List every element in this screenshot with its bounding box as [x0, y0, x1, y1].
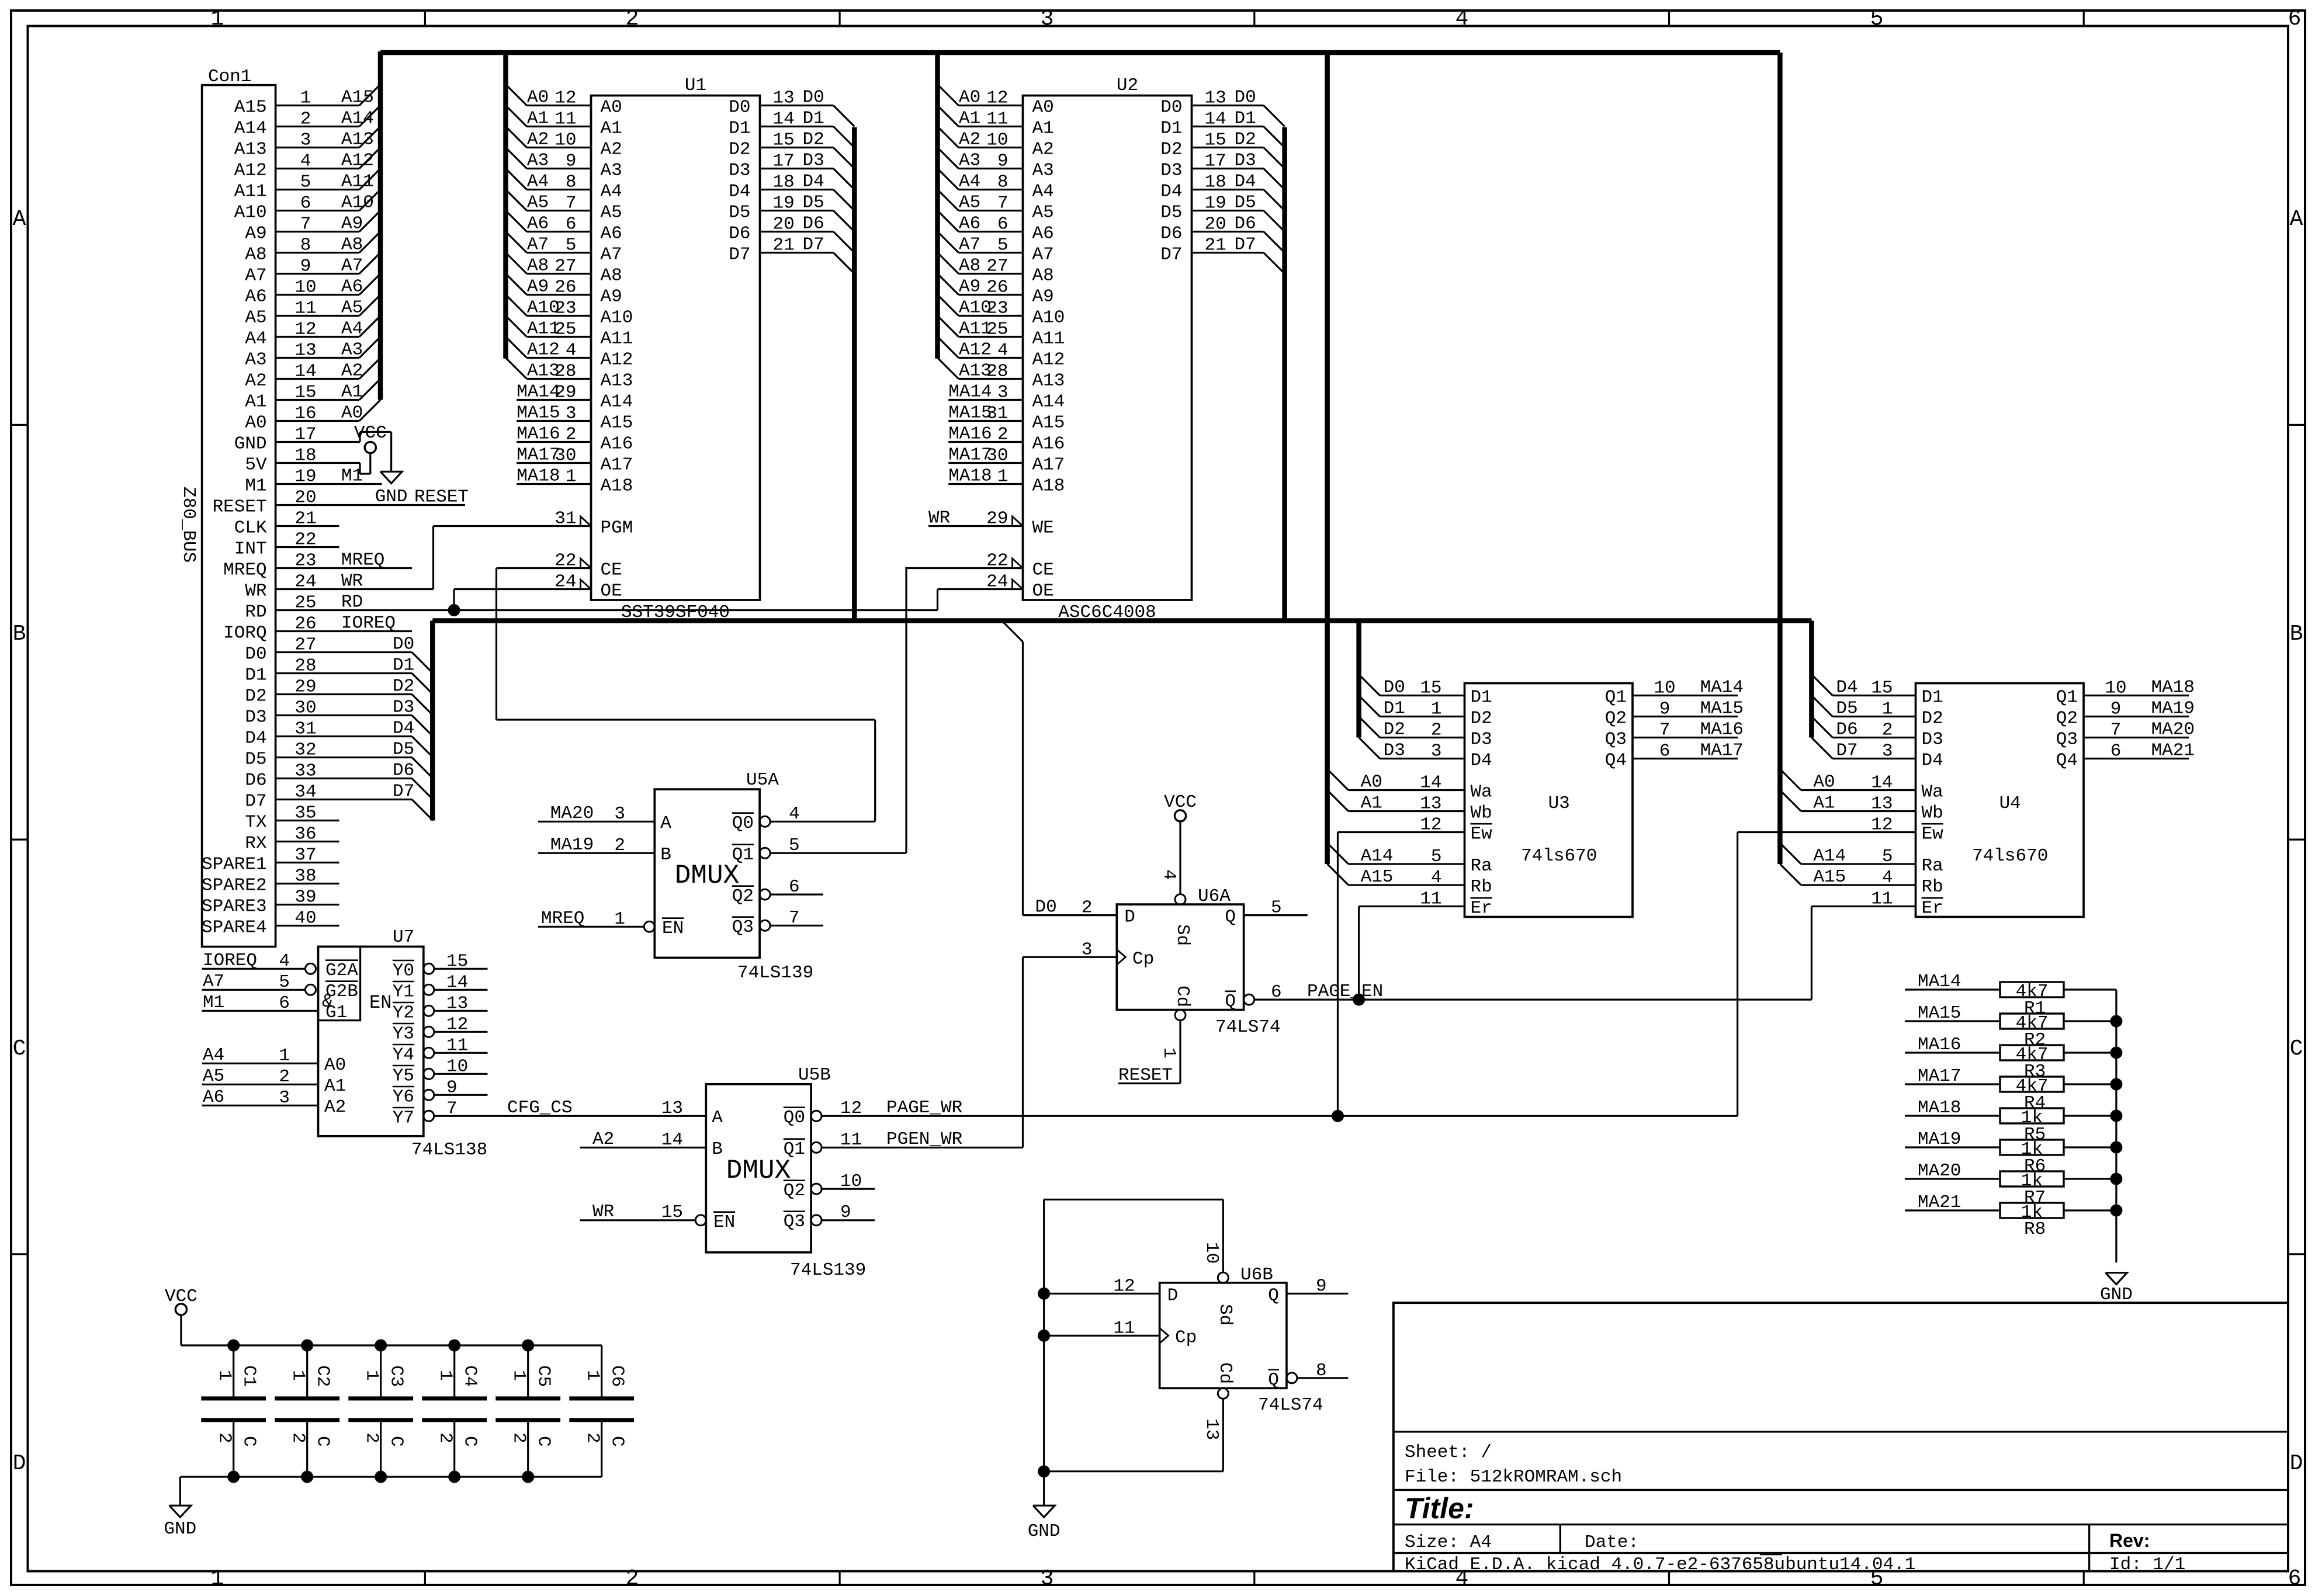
svg-text:Cp: Cp: [1175, 1327, 1197, 1348]
U2 pin A2 wire/entry: [938, 127, 959, 148]
bus entry D0: [412, 653, 433, 674]
svg-text:Title:: Title:: [1405, 1492, 1474, 1525]
svg-text:D2: D2: [729, 140, 750, 160]
svg-text:Q: Q: [1225, 907, 1236, 928]
U4 pin Q3 wire net MA20: [2084, 737, 2189, 738]
svg-text:MA15: MA15: [1918, 1003, 1961, 1023]
svg-text:A4: A4: [959, 172, 980, 192]
svg-text:PGEN_WR: PGEN_WR: [886, 1129, 962, 1150]
Con1 pin17 GND wire: [276, 441, 360, 443]
U3 pin Q3 wire net MA16: [1633, 737, 1738, 738]
U6B Cd pin (13) tied to rail: [1218, 1388, 1228, 1399]
svg-text:GND: GND: [1028, 1521, 1061, 1542]
svg-text:D0: D0: [245, 644, 266, 665]
svg-text:12: 12: [986, 88, 1008, 109]
wire pin4 net A12: [276, 168, 359, 169]
svg-text:7: 7: [566, 193, 577, 214]
svg-text:20: 20: [1205, 214, 1226, 235]
svg-text:D4: D4: [393, 719, 414, 739]
svg-text:C: C: [2290, 1036, 2303, 1061]
svg-text:D5: D5: [1836, 699, 1857, 719]
VCC symbol at Con1 pin18: [365, 442, 376, 453]
svg-text:MA19: MA19: [1918, 1129, 1961, 1150]
resistor R5 1k net MA18: [1905, 1115, 2000, 1116]
svg-text:SPARE1: SPARE1: [202, 855, 267, 875]
U1 pin A5 wire/entry: [506, 190, 527, 211]
bus entry D4: [412, 737, 433, 758]
svg-text:MA16: MA16: [1918, 1035, 1961, 1055]
svg-text:D6: D6: [803, 214, 824, 234]
svg-text:6: 6: [1271, 982, 1282, 1002]
svg-text:MREQ: MREQ: [223, 560, 266, 581]
svg-text:D7: D7: [393, 782, 414, 802]
svg-text:Y7: Y7: [393, 1108, 414, 1128]
svg-text:D7: D7: [803, 235, 824, 255]
bus entry A14: [359, 106, 380, 127]
U2 pin A15 wire, net MA15: [948, 420, 1023, 422]
bus: U1 address bus vertical: [503, 53, 508, 359]
svg-text:15: 15: [1871, 678, 1893, 699]
svg-text:24: 24: [555, 572, 576, 592]
svg-text:D4: D4: [1160, 182, 1182, 202]
U6A Qbar pin (6) net PAGE_EN: [1244, 994, 1254, 1005]
svg-text:A7: A7: [203, 972, 224, 992]
svg-text:A11: A11: [601, 329, 633, 349]
svg-text:Y5: Y5: [393, 1066, 414, 1086]
svg-text:15: 15: [1205, 130, 1226, 151]
svg-text:12: 12: [840, 1098, 862, 1119]
svg-text:74ls670: 74ls670: [1972, 846, 2048, 866]
svg-text:D: D: [1124, 907, 1135, 928]
svg-text:A14: A14: [1361, 846, 1394, 866]
svg-text:A4: A4: [203, 1045, 224, 1066]
svg-text:2: 2: [509, 1432, 529, 1444]
svg-text:Q4: Q4: [1605, 751, 1627, 771]
U3 Wa pin (A0): [1328, 769, 1349, 790]
bus entry D2: [412, 695, 433, 716]
svg-text:A5: A5: [959, 193, 980, 213]
bus entry A10: [359, 190, 380, 211]
svg-text:27: 27: [555, 256, 576, 277]
svg-text:1: 1: [214, 1370, 235, 1381]
svg-text:INT: INT: [234, 539, 267, 560]
svg-text:SPARE2: SPARE2: [202, 876, 267, 896]
U5B EN pin (15), net WR: [580, 1219, 696, 1221]
svg-text:A9: A9: [959, 277, 980, 297]
U5A Q1 output (pin5) to U2 CE: [760, 848, 770, 858]
U2 pin A10 wire/entry: [938, 295, 959, 316]
bus: U1 data bus vertical: [852, 127, 857, 621]
svg-text:D5: D5: [393, 740, 414, 760]
svg-text:A1: A1: [601, 119, 622, 139]
svg-text:C: C: [313, 1436, 333, 1447]
U2 pin A1 wire/entry: [938, 106, 959, 127]
svg-text:A7: A7: [527, 235, 549, 255]
svg-text:D7: D7: [245, 792, 266, 812]
resistor R3 4k7 net MA16: [1905, 1052, 2000, 1053]
svg-text:MA17: MA17: [948, 445, 992, 466]
svg-text:A0: A0: [527, 88, 549, 108]
U5B Q0 (12) net PAGE_WR: [811, 1111, 822, 1121]
svg-text:2: 2: [279, 1067, 290, 1087]
svg-text:A: A: [2290, 207, 2303, 232]
svg-text:WR: WR: [341, 571, 363, 592]
U1 pin A9 wire/entry: [506, 274, 527, 295]
svg-text:Q0: Q0: [732, 813, 754, 834]
svg-text:6: 6: [2288, 6, 2302, 32]
Con1 pin25 RD wire, long run to U2 OE: [276, 609, 938, 611]
svg-text:Q: Q: [1268, 1285, 1279, 1306]
svg-text:3: 3: [566, 404, 577, 424]
U1 pin A2 wire/entry: [506, 127, 527, 148]
svg-text:27: 27: [986, 256, 1008, 277]
junction R7 on pull rail: [2110, 1173, 2122, 1185]
svg-text:CLK: CLK: [234, 518, 267, 539]
bus entry A6: [359, 274, 380, 295]
svg-text:Y2: Y2: [393, 1002, 414, 1023]
U1 pin A12 wire/entry: [506, 337, 527, 358]
svg-text:D4: D4: [1836, 678, 1857, 698]
U1 pin A6 wire/entry: [506, 211, 527, 232]
svg-text:2: 2: [214, 1432, 235, 1444]
U6A Cd pin (1) to RESET: [1175, 1010, 1186, 1021]
U3 pin Q4 wire net MA17: [1633, 758, 1738, 759]
U5A Q0 output (pin4) to U1 CE: [760, 816, 770, 827]
svg-text:A9: A9: [527, 277, 549, 297]
svg-text:D1: D1: [393, 655, 414, 676]
U4 Rb pin (A15): [1780, 864, 1801, 885]
svg-text:D0: D0: [803, 88, 824, 108]
svg-text:A14: A14: [341, 109, 374, 129]
svg-text:TX: TX: [245, 813, 267, 833]
U1 pin D1 wire/entry: [760, 126, 834, 127]
svg-text:Q3: Q3: [2056, 730, 2078, 750]
svg-text:A16: A16: [601, 434, 633, 454]
svg-text:A0: A0: [1032, 98, 1054, 118]
U1 pin D7 wire/entry: [760, 252, 834, 254]
svg-text:C5: C5: [533, 1365, 554, 1387]
svg-text:6: 6: [1659, 741, 1671, 762]
svg-text:U5B: U5B: [798, 1065, 831, 1085]
IC U6B 74LS74 flip-flop body: [1160, 1283, 1287, 1389]
svg-text:MA14: MA14: [1918, 972, 1961, 992]
svg-text:A0: A0: [601, 98, 622, 118]
svg-text:A13: A13: [1032, 371, 1065, 391]
svg-text:2: 2: [362, 1432, 382, 1444]
svg-text:1: 1: [362, 1370, 382, 1381]
svg-text:31: 31: [986, 404, 1008, 424]
svg-text:A14: A14: [1032, 392, 1065, 412]
svg-text:7: 7: [997, 193, 1009, 214]
Con1 pin21 CLK stub: [276, 525, 339, 527]
svg-text:4: 4: [566, 341, 577, 361]
U7 Y1 output pin: [424, 984, 434, 995]
svg-text:MA20: MA20: [2151, 720, 2195, 740]
svg-text:B: B: [660, 845, 671, 865]
svg-text:14: 14: [1420, 773, 1441, 793]
svg-text:74LS138: 74LS138: [411, 1140, 487, 1160]
svg-text:Date:: Date:: [1585, 1532, 1639, 1553]
svg-text:A1: A1: [1813, 793, 1835, 814]
wire pin29 net D2: [276, 693, 412, 695]
svg-text:A12: A12: [527, 340, 560, 360]
bus entry A15: [359, 85, 380, 106]
U7 Y2 output pin: [424, 1005, 434, 1016]
svg-text:RD: RD: [245, 602, 266, 623]
svg-text:A13: A13: [341, 130, 374, 150]
svg-text:10: 10: [446, 1056, 468, 1077]
svg-text:A9: A9: [601, 287, 622, 307]
svg-text:24: 24: [986, 572, 1008, 592]
svg-text:GND: GND: [234, 434, 267, 454]
ground symbol for decoupling rail: [169, 1505, 191, 1517]
svg-text:M1: M1: [341, 466, 363, 487]
svg-text:Q4: Q4: [2056, 751, 2078, 771]
resistor R6 1k net MA19: [1905, 1146, 2000, 1148]
svg-text:D3: D3: [803, 151, 824, 171]
svg-text:A15: A15: [341, 88, 374, 108]
U1 pin A10 wire/entry: [506, 295, 527, 316]
U1 pin D6 wire/entry: [760, 231, 834, 233]
svg-text:A0: A0: [1361, 772, 1382, 793]
svg-text:Id: 1/1: Id: 1/1: [2109, 1555, 2185, 1575]
svg-text:9: 9: [1659, 699, 1671, 720]
junction R5 on pull rail: [2110, 1110, 2122, 1122]
svg-text:D3: D3: [1235, 151, 1256, 171]
U1 pin D5 wire/entry: [760, 210, 834, 211]
svg-text:A5: A5: [1032, 203, 1054, 223]
junction R3 on pull rail: [2110, 1047, 2122, 1059]
svg-text:MA20: MA20: [550, 803, 594, 824]
U4 Er wire down to PAGE_EN: [1811, 905, 1915, 907]
U1 pin A7 wire/entry: [506, 232, 527, 253]
U1 pin D3 wire/entry: [760, 168, 834, 169]
U2 pin A16 wire, net MA16: [948, 441, 1023, 443]
svg-text:A13: A13: [234, 140, 267, 160]
svg-text:GND: GND: [375, 487, 408, 507]
bus entry A5: [359, 295, 380, 316]
U2 CE wire from U5A Q1: [905, 567, 1023, 569]
svg-text:14: 14: [1205, 109, 1226, 130]
svg-text:25: 25: [555, 320, 576, 340]
svg-text:1: 1: [583, 1370, 603, 1381]
svg-text:11: 11: [1113, 1318, 1135, 1338]
svg-text:A11: A11: [341, 172, 374, 192]
U6B D pin (12): [1044, 1293, 1160, 1295]
svg-text:D4: D4: [245, 728, 266, 749]
svg-text:MA21: MA21: [2151, 741, 2195, 761]
U4 pin D1 wire/entry net D4: [1811, 675, 1832, 696]
svg-text:74LS74: 74LS74: [1258, 1395, 1323, 1415]
svg-text:D4: D4: [803, 172, 824, 192]
svg-text:8: 8: [566, 172, 577, 193]
bus: Con1 data bus vertical: [430, 621, 435, 821]
svg-text:D1: D1: [245, 665, 266, 686]
svg-text:1: 1: [566, 467, 577, 487]
svg-text:MA15: MA15: [1700, 699, 1744, 719]
U7 Y0 output pin: [424, 963, 434, 974]
svg-text:EN: EN: [662, 918, 684, 939]
svg-text:MREQ: MREQ: [541, 908, 584, 929]
resistor R4 4k7 net MA17: [1905, 1083, 2000, 1085]
svg-text:14: 14: [661, 1130, 683, 1150]
U6B Qbar pin (8) stub: [1287, 1373, 1297, 1383]
U7 Y5 output pin: [424, 1068, 434, 1079]
svg-text:9: 9: [1316, 1276, 1327, 1296]
svg-text:4: 4: [1431, 868, 1442, 888]
Con1 pin20 RESET wire + label: [276, 504, 465, 506]
svg-text:A1: A1: [324, 1076, 346, 1097]
U7 Y3 output pin: [424, 1026, 434, 1037]
svg-text:10: 10: [1201, 1242, 1222, 1264]
svg-text:D7: D7: [1235, 235, 1256, 255]
svg-text:Q3: Q3: [784, 1212, 805, 1232]
U3 Er wire down to PAGE_EN: [1359, 905, 1465, 907]
svg-text:A10: A10: [601, 308, 633, 328]
U7 A1 pin (A5): [202, 1084, 318, 1085]
svg-text:2: 2: [626, 1566, 639, 1591]
svg-text:30: 30: [986, 446, 1008, 466]
svg-text:MA15: MA15: [517, 403, 560, 424]
svg-text:G1: G1: [325, 1002, 347, 1023]
title block frame: [1394, 1303, 2288, 1571]
svg-text:MA18: MA18: [2151, 678, 2195, 698]
bus entry A12: [359, 148, 380, 169]
svg-text:7: 7: [1659, 720, 1671, 741]
IC U6A 74LS74 flip-flop body: [1117, 904, 1243, 1010]
svg-text:A5: A5: [527, 193, 549, 213]
svg-text:MREQ: MREQ: [341, 550, 384, 571]
svg-text:A15: A15: [234, 98, 267, 118]
junction R8 on pull rail: [2110, 1205, 2122, 1217]
svg-text:A15: A15: [601, 413, 633, 433]
svg-text:13: 13: [1420, 794, 1441, 814]
svg-text:MA21: MA21: [1918, 1192, 1961, 1213]
svg-text:A0: A0: [245, 413, 266, 433]
svg-text:A12: A12: [1032, 350, 1065, 370]
U4 Wb pin (A1): [1780, 790, 1801, 811]
wire pin33 net D6: [276, 778, 412, 779]
svg-text:1: 1: [435, 1370, 456, 1381]
svg-text:A7: A7: [1032, 245, 1054, 265]
svg-text:Z80_BUS: Z80_BUS: [178, 487, 199, 563]
svg-text:KiCad E.D.A. kicad 4.0.7-e2-6: KiCad E.D.A. kicad 4.0.7-e2-637658ubuntu…: [1405, 1555, 1915, 1575]
U1 pin A1 wire/entry: [506, 106, 527, 127]
svg-text:A3: A3: [1032, 161, 1054, 181]
svg-text:WE: WE: [1032, 518, 1054, 539]
resistor R2 4k7 net MA15: [1905, 1020, 2000, 1022]
svg-text:2: 2: [1082, 898, 1093, 918]
bus entry A4: [359, 316, 380, 337]
svg-text:1: 1: [288, 1370, 309, 1381]
svg-text:11: 11: [446, 1035, 468, 1056]
U4 pin D2 wire/entry net D5: [1811, 696, 1832, 717]
svg-text:D6: D6: [393, 761, 414, 781]
wire pin3 net A13: [276, 147, 359, 148]
svg-text:D: D: [13, 1451, 26, 1476]
svg-text:Q3: Q3: [1605, 730, 1627, 750]
svg-text:A11: A11: [234, 182, 267, 202]
svg-text:1: 1: [997, 467, 1009, 487]
U3 pin D1 wire/entry net D0: [1359, 675, 1380, 696]
svg-text:File: 512kROMRAM.sch: File: 512kROMRAM.sch: [1405, 1467, 1622, 1487]
U4 pin Q4 wire net MA21: [2084, 758, 2189, 759]
svg-text:IOREQ: IOREQ: [203, 950, 257, 971]
svg-text:C: C: [460, 1436, 480, 1447]
VCC symbol for decoupling rail: [175, 1304, 186, 1315]
svg-text:D3: D3: [729, 161, 750, 181]
decoupling top rail: [181, 1344, 602, 1346]
svg-text:MA17: MA17: [1918, 1066, 1961, 1087]
svg-text:5: 5: [279, 972, 290, 993]
svg-text:9: 9: [446, 1077, 458, 1098]
svg-text:14: 14: [446, 972, 468, 993]
bus entry A3: [359, 337, 380, 358]
U6B Cp pin (11): [1044, 1335, 1160, 1337]
U7 A2 pin (A6): [202, 1105, 318, 1106]
svg-text:D1: D1: [1471, 688, 1492, 708]
svg-text:A2: A2: [592, 1129, 614, 1150]
svg-text:31: 31: [555, 509, 576, 529]
svg-text:A4: A4: [601, 182, 622, 202]
svg-text:13: 13: [1871, 794, 1893, 814]
svg-text:10: 10: [1654, 678, 1675, 699]
svg-text:D5: D5: [1160, 203, 1182, 223]
svg-text:29: 29: [555, 383, 576, 403]
svg-text:A9: A9: [245, 224, 266, 244]
svg-text:DMUX: DMUX: [726, 1156, 791, 1186]
svg-text:MA16: MA16: [1700, 720, 1744, 740]
wire pin31 net D4: [276, 735, 412, 737]
svg-text:A2: A2: [527, 130, 549, 150]
svg-text:19: 19: [773, 193, 795, 214]
svg-text:A7: A7: [959, 235, 980, 255]
svg-text:1: 1: [1431, 699, 1442, 720]
svg-text:U6A: U6A: [1198, 886, 1231, 907]
svg-text:D1: D1: [1922, 688, 1943, 708]
svg-text:MA18: MA18: [1918, 1098, 1961, 1118]
bus entry A13: [359, 127, 380, 148]
wire pin10 net A6: [276, 294, 359, 296]
svg-text:A15: A15: [1032, 413, 1065, 433]
bus entry A0: [359, 400, 380, 421]
svg-text:Y1: Y1: [393, 981, 414, 1002]
svg-text:4: 4: [279, 951, 290, 972]
svg-text:Q: Q: [1225, 991, 1236, 1012]
U3 Ew wire down to PAGE_WR: [1338, 831, 1465, 833]
svg-text:15: 15: [773, 130, 795, 151]
svg-text:A3: A3: [527, 151, 549, 171]
svg-text:A7: A7: [245, 266, 266, 286]
svg-text:D0: D0: [1384, 678, 1405, 698]
U2 pin A12 wire/entry: [938, 337, 959, 358]
svg-text:R8: R8: [2024, 1219, 2046, 1240]
svg-text:RESET: RESET: [1118, 1066, 1173, 1086]
U7 Y7 output pin: [424, 1111, 434, 1121]
svg-text:D6: D6: [1836, 720, 1857, 740]
svg-text:D5: D5: [245, 750, 266, 770]
wire pin12 net A4: [276, 336, 359, 338]
svg-text:RESET: RESET: [414, 487, 469, 508]
svg-text:C: C: [13, 1036, 26, 1061]
svg-text:D5: D5: [729, 203, 750, 223]
Con1 pin19 M1 wire + label: [276, 483, 382, 485]
svg-text:15: 15: [1420, 678, 1441, 699]
wire RD up to U2 OE: [937, 589, 938, 610]
resistor R7 1k net MA20: [1905, 1178, 2000, 1179]
svg-text:3: 3: [1431, 741, 1442, 762]
svg-text:D2: D2: [803, 130, 824, 150]
